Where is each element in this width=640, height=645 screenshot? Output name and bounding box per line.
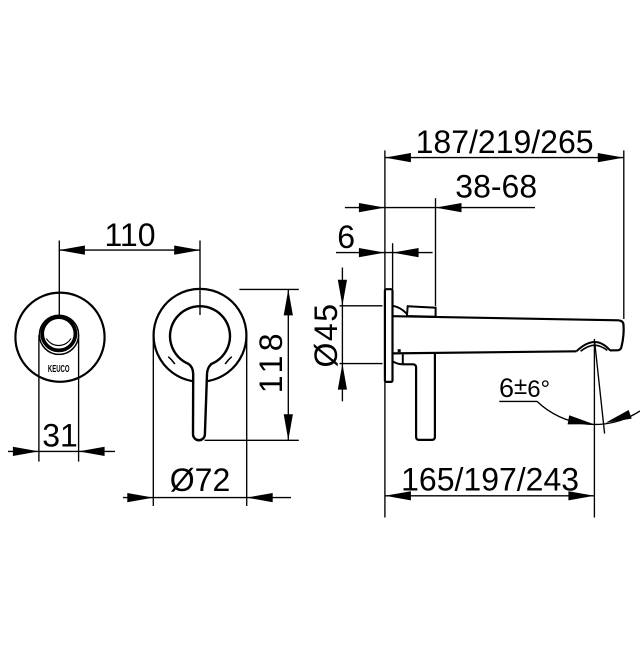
dimension 187/219/265: right extension line — [623, 150, 625, 319]
svg-text:6: 6 — [337, 219, 355, 255]
front view 1: spout tube outer thin circle — [39, 315, 78, 354]
svg-text:165/197/243: 165/197/243 — [401, 461, 579, 497]
front view 2: recess smile arc left — [168, 357, 175, 364]
side view: spout outlet bump inner crescent — [581, 345, 608, 351]
svg-text:Ø72: Ø72 — [170, 462, 230, 498]
dimension 118: bottom arrow — [284, 414, 293, 440]
dimension 165/197/243: left arrow — [385, 491, 411, 500]
dimension 118: bottom extension line — [205, 439, 299, 441]
front view 2: handle escutcheon circle (interrupted by lever stem) — [154, 289, 247, 381]
dimension 6: dimension line — [336, 252, 433, 254]
side view: bottom fillet curve plate to hub — [393, 362, 402, 365]
front view 2: handle lollipop outline (ring + stem) — [170, 306, 230, 440]
side view: spout right tip edge — [610, 321, 624, 351]
dimension Ø45: top arrow (outside, pointing down) — [338, 280, 347, 306]
dimension 118: top arrow — [284, 289, 293, 315]
svg-text:31: 31 — [42, 418, 78, 454]
svg-text:118: 118 — [253, 329, 289, 393]
dimension 38-68: left arrow (outside) — [359, 203, 385, 212]
side view: spout outlet bump outer — [576, 342, 610, 351]
front view 1: spout tube rim thick circle — [42, 317, 75, 350]
svg-text:6±6°: 6±6° — [499, 373, 550, 403]
dimension 6: extension line (plate front face) — [392, 243, 394, 289]
dimension Ø45: bottom arrow (outside, pointing up) — [338, 364, 347, 390]
side view: hub right edge — [402, 355, 404, 365]
dimension 110: left arrow — [59, 246, 85, 255]
angle dimension 6±6°: right arrow on arc — [604, 410, 632, 427]
side view: top fillet curve plate to sleeve — [393, 306, 407, 314]
svg-text:38-68: 38-68 — [455, 169, 537, 205]
dimension Ø72: left arrow (outside) — [127, 493, 153, 502]
dimension 31: right extension line — [78, 335, 80, 462]
svg-text:187/219/265: 187/219/265 — [416, 124, 594, 160]
dimension 165/197/243: dimension line — [385, 495, 595, 497]
dimension 110: right arrow — [174, 246, 200, 255]
dimension 110: right extension line (center line of view 2) — [199, 241, 201, 316]
dimension 118: top extension line — [239, 288, 298, 290]
dimension 38-68: right arrow (outside) — [436, 203, 462, 212]
dimension 165/197/243: left extension line — [384, 382, 386, 518]
dimension 31: left arrow (outside) — [13, 447, 39, 456]
dimension 110: left extension line (center line of view 1) — [58, 241, 60, 317]
side view: mounting sleeve box on spout — [407, 306, 436, 317]
front view 1: spout escutcheon outer circle — [15, 293, 104, 382]
front view 1: spout tube inner bottom arc — [46, 339, 71, 346]
dimension 165/197/243: right arrow — [568, 491, 594, 500]
dimension 6: right arrow (outside) — [393, 248, 419, 257]
dimension 187/219/265: left arrow — [385, 153, 411, 162]
dimension 6: left arrow (outside) — [359, 248, 385, 257]
dimension 110: dimension line — [59, 249, 200, 251]
dimension Ø45: top extension line — [340, 305, 383, 307]
dimension 165/197/243: right extension line (outlet axis) — [593, 339, 595, 518]
angle dimension 6±6°: leader underline and arc — [499, 401, 640, 424]
dimension 187/219/265: dimension line — [385, 157, 624, 159]
svg-text:KEUCO: KEUCO — [48, 363, 70, 374]
dimension 187/219/265: left extension line (wall face) — [384, 150, 386, 289]
svg-text:Ø45: Ø45 — [308, 303, 344, 368]
dimension Ø45: dimension line — [341, 268, 343, 402]
dimension Ø72: left extension line — [152, 335, 154, 506]
dimension Ø45: bottom extension line — [340, 363, 383, 365]
side view: set screw dot — [398, 349, 401, 352]
side view: spout bottom edge — [393, 351, 577, 353]
dimension 38-68: dimension line — [345, 207, 535, 209]
dimension 31: right arrow (outside) — [79, 447, 105, 456]
front view 2: recess smile arc right — [225, 357, 232, 364]
dimension 118: dimension line — [287, 289, 289, 440]
side view: spout top edge — [393, 316, 619, 320]
angle dimension 6±6°: slanted reference line — [595, 341, 605, 433]
dimension 31: left extension line — [38, 335, 40, 462]
svg-text:110: 110 — [104, 217, 155, 253]
dimension Ø72: right arrow (outside) — [247, 493, 273, 502]
dimension 187/219/265: right arrow — [598, 153, 624, 162]
dimension Ø72: right extension line — [246, 335, 248, 506]
side view: handle lever outline — [402, 353, 435, 440]
dimension 31: dimension line — [8, 450, 115, 452]
dimension Ø72: dimension line — [123, 497, 291, 499]
dimension 38-68: right extension line (sleeve end) — [435, 198, 437, 306]
angle dimension 6±6°: left arrow on arc — [568, 415, 595, 429]
side view: wall plate — [385, 289, 393, 382]
